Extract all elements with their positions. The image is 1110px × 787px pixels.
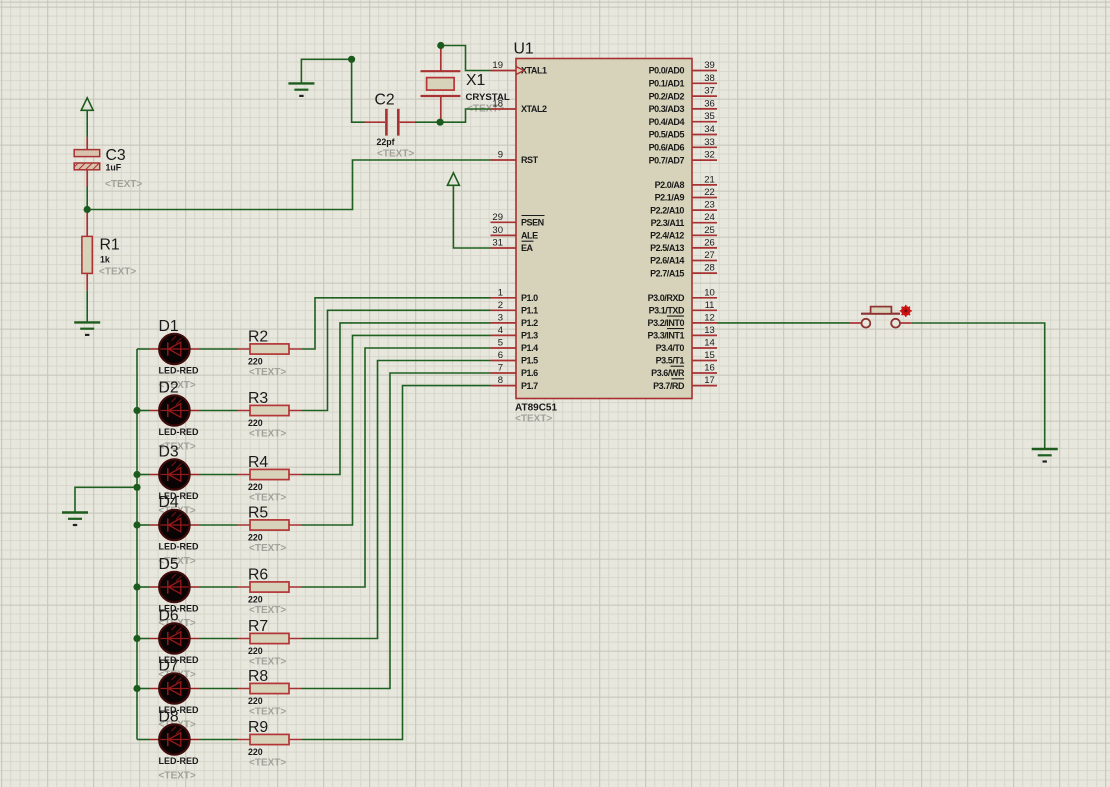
svg-text:16: 16 (704, 363, 715, 374)
resistor R8 body (250, 683, 289, 693)
resistor R1 text placeholder (99, 267, 136, 278)
resistor R9 reference label (248, 719, 268, 736)
resistor R9 body (250, 734, 289, 744)
resistor R1 value label 1k (100, 255, 110, 265)
resistor R2 pin stubs (238, 348, 302, 350)
svg-text:P2.4/A12: P2.4/A12 (650, 231, 684, 241)
svg-text:P2.5/A13: P2.5/A13 (650, 243, 684, 253)
LED D2 value label LED-RED (159, 427, 199, 437)
resistor R7 text placeholder (249, 657, 286, 668)
wire resistor R8 to P1.6 pin (302, 373, 491, 689)
LED D5 value label LED-RED (159, 604, 199, 614)
button interactive marker (900, 305, 912, 317)
pin 26 P2.5/A13 (650, 237, 717, 253)
svg-text:1: 1 (498, 287, 503, 298)
wire resistor R6 to P1.4 pin (302, 348, 491, 587)
pin 24 P2.3/A11 (651, 212, 717, 228)
capacitor C3 top pin stub (86, 137, 88, 149)
svg-text:P0.7/AD7: P0.7/AD7 (649, 155, 685, 165)
svg-text:220: 220 (248, 418, 263, 428)
svg-text:2: 2 (498, 300, 503, 311)
svg-text:P3.5/T1: P3.5/T1 (656, 356, 685, 366)
resistor R5 pin stubs (238, 524, 302, 526)
wire LED cathode bus (136, 349, 138, 740)
pin 7 P1.6 (491, 363, 539, 379)
LED D4 text placeholder (159, 556, 196, 567)
crystal X1 text placeholder (467, 104, 504, 115)
wire node B to XTAL2 pin (440, 109, 490, 122)
svg-text:LED-RED: LED-RED (159, 542, 199, 552)
svg-text:12: 12 (704, 312, 715, 323)
resistor R2 reference label (248, 329, 268, 346)
wire EA power arrow to EA pin (453, 185, 490, 248)
pin 3 P1.2 (491, 312, 539, 328)
LED D5 text placeholder (159, 618, 196, 629)
svg-text:PSEN: PSEN (521, 218, 544, 228)
crystal X1 body (427, 78, 455, 91)
resistor R4 reference label (248, 454, 268, 471)
svg-text:P1.7: P1.7 (521, 381, 538, 391)
svg-text:P2.0/A8: P2.0/A8 (655, 180, 685, 190)
svg-text:R1: R1 (100, 237, 120, 254)
svg-text:<TEXT>: <TEXT> (249, 657, 286, 668)
svg-text:P2.6/A14: P2.6/A14 (650, 256, 684, 266)
pin 17 P3.7/RD (653, 375, 717, 391)
svg-text:4: 4 (498, 325, 503, 336)
svg-text:R2: R2 (248, 329, 268, 346)
resistor R5 reference label (248, 505, 268, 522)
resistor R4 text placeholder (249, 493, 286, 504)
svg-text:R6: R6 (248, 567, 268, 584)
resistor R6 pin stubs (238, 586, 302, 588)
wire crystal-top node to XTAL1 pin (441, 46, 491, 71)
resistor R1 bottom pin stub (86, 273, 88, 290)
svg-text:D5: D5 (159, 556, 179, 573)
svg-text:35: 35 (704, 111, 715, 122)
svg-text:C3: C3 (106, 147, 126, 164)
svg-text:R5: R5 (248, 505, 268, 522)
pin 34 P0.5/AD5 (649, 124, 717, 140)
svg-text:P3.1/TXD: P3.1/TXD (649, 306, 685, 316)
svg-text:R3: R3 (248, 390, 268, 407)
pin 18 XTAL2 (491, 99, 548, 115)
svg-text:31: 31 (492, 238, 503, 249)
svg-text:1uF: 1uF (106, 163, 122, 173)
LED D6 reference label (159, 608, 179, 625)
LED D3 reference label (159, 444, 179, 461)
resistor R3 reference label (248, 390, 268, 407)
svg-text:P2.1/A9: P2.1/A9 (655, 193, 685, 203)
LED D8 (137, 724, 200, 754)
LED D5 (137, 572, 200, 602)
svg-text:P2.7/A15: P2.7/A15 (650, 268, 684, 278)
svg-text:26: 26 (704, 237, 715, 248)
svg-text:P0.0/AD0: P0.0/AD0 (649, 66, 685, 76)
LED D7 (137, 673, 200, 703)
svg-text:P0.5/AD5: P0.5/AD5 (649, 130, 685, 140)
pin 21 P2.0/A8 (655, 174, 717, 190)
IC U1 text placeholder (515, 414, 552, 425)
wire LED D5 anode to resistor R6 (200, 586, 238, 588)
pin 33 P0.6/AD6 (649, 137, 717, 153)
svg-text:10: 10 (704, 287, 715, 298)
LED D2 reference label (159, 380, 179, 397)
LED D7 reference label (159, 658, 179, 675)
pin 12 P3.2/INT0 (648, 312, 717, 328)
pin 5 P1.4 (491, 338, 539, 354)
resistor R6 value label 220 (248, 595, 263, 605)
resistor R2 value label 220 (248, 357, 263, 367)
crystal X1 bottom pin stub (440, 96, 442, 122)
wire LED D3 anode to resistor R4 (200, 474, 238, 476)
svg-text:34: 34 (704, 124, 715, 135)
svg-text:D4: D4 (159, 494, 179, 511)
svg-text:19: 19 (492, 60, 503, 71)
svg-text:P3.7/RD: P3.7/RD (653, 381, 685, 391)
svg-text:LED-RED: LED-RED (159, 427, 199, 437)
svg-text:P0.3/AD3: P0.3/AD3 (649, 104, 685, 114)
pin 13 P3.3/INT1 (648, 325, 717, 341)
svg-text:24: 24 (704, 212, 715, 223)
svg-text:LED-RED: LED-RED (159, 756, 199, 766)
capacitor C2 text placeholder (377, 149, 414, 160)
pin 22 P2.1/A9 (655, 187, 717, 203)
svg-text:D6: D6 (159, 608, 179, 625)
capacitor C3 text placeholder (105, 179, 142, 190)
svg-text:<TEXT>: <TEXT> (377, 149, 414, 160)
svg-text:6: 6 (498, 350, 503, 361)
LED D4 reference label (159, 494, 179, 511)
wire button to ground (911, 323, 1044, 449)
svg-text:<TEXT>: <TEXT> (105, 179, 142, 190)
svg-text:22pf: 22pf (377, 137, 395, 147)
svg-text:<TEXT>: <TEXT> (249, 707, 286, 718)
resistor R4 pin stubs (238, 474, 302, 476)
svg-text:ALE: ALE (521, 231, 538, 241)
svg-text:13: 13 (704, 325, 715, 336)
wire resistor R3 to P1.1 pin (302, 310, 491, 410)
pin 27 P2.6/A14 (650, 250, 717, 266)
junction dots on LED bus (133, 407, 140, 692)
svg-text:P2.3/A11: P2.3/A11 (651, 218, 685, 228)
wire P3.2 pin to button (717, 322, 850, 324)
svg-text:220: 220 (248, 646, 263, 656)
resistor R8 value label 220 (248, 696, 263, 706)
svg-text:D7: D7 (159, 658, 179, 675)
svg-text:32: 32 (704, 150, 715, 161)
svg-text:D2: D2 (159, 380, 179, 397)
wire C2 right to node B (415, 121, 440, 123)
capacitor C2 value label 22pf (377, 137, 395, 147)
IC U1 AT89C51 body (516, 59, 692, 399)
svg-text:EA: EA (521, 243, 534, 253)
svg-text:1k: 1k (100, 255, 110, 265)
LED D3 (137, 459, 200, 489)
resistor R3 text placeholder (249, 429, 286, 440)
svg-text:R4: R4 (248, 454, 268, 471)
svg-text:7: 7 (498, 363, 503, 374)
svg-text:P0.6/AD6: P0.6/AD6 (649, 143, 685, 153)
capacitor C3 top plate (74, 150, 100, 157)
wire LED D8 anode to resistor R9 (200, 739, 238, 741)
ground below R1 (74, 322, 100, 335)
resistor R9 pin stubs (238, 739, 302, 741)
svg-text:36: 36 (704, 98, 715, 109)
svg-text:5: 5 (498, 338, 503, 349)
LED D1 reference label (159, 318, 179, 335)
wire resistor R7 to P1.5 pin (302, 361, 491, 639)
IC U1 reference label (514, 41, 534, 58)
svg-text:R7: R7 (248, 618, 268, 635)
wire C3/R1 junction to RST pin (87, 160, 490, 210)
svg-text:LED-RED: LED-RED (159, 366, 199, 376)
resistor R1 body (82, 236, 92, 273)
pin 25 P2.4/A12 (650, 225, 717, 241)
LED D2 text placeholder (159, 442, 196, 453)
svg-text:39: 39 (704, 60, 715, 71)
LED D8 reference label (159, 709, 179, 726)
wire resistor R2 to P1.0 pin (302, 298, 491, 349)
LED D6 text placeholder (159, 670, 196, 681)
LED D8 text placeholder (159, 771, 196, 782)
svg-text:P3.0/RXD: P3.0/RXD (648, 293, 685, 303)
capacitor C2 reference label (375, 92, 395, 109)
LED D7 text placeholder (159, 720, 196, 731)
pin 30 ALE (491, 225, 539, 241)
capacitor C2 left plate (385, 109, 388, 136)
svg-text:P3.3/INT1: P3.3/INT1 (648, 331, 685, 341)
svg-text:R8: R8 (248, 668, 268, 685)
LED D3 text placeholder (159, 506, 196, 517)
pin 4 P1.3 (491, 325, 539, 341)
svg-text:P0.4/AD4: P0.4/AD4 (649, 117, 685, 127)
svg-text:25: 25 (704, 225, 715, 236)
svg-text:P0.2/AD2: P0.2/AD2 (649, 91, 685, 101)
pin 35 P0.4/AD4 (649, 111, 717, 127)
wire ground branch from LED bus (75, 487, 137, 512)
pin 6 P1.5 (491, 350, 539, 366)
svg-text:P0.1/AD1: P0.1/AD1 (649, 79, 685, 89)
resistor R9 text placeholder (249, 758, 286, 769)
svg-text:<TEXT>: <TEXT> (249, 367, 286, 378)
wire LED D6 anode to resistor R7 (200, 638, 238, 640)
resistor R4 body (250, 469, 289, 479)
svg-text:11: 11 (705, 300, 715, 311)
svg-text:29: 29 (492, 212, 503, 223)
wire LED D4 anode to resistor R5 (200, 524, 238, 526)
svg-text:23: 23 (704, 200, 715, 211)
LED D2 (137, 395, 200, 425)
resistor R8 reference label (248, 668, 268, 685)
svg-text:P2.2/A10: P2.2/A10 (650, 205, 684, 215)
resistor R5 value label 220 (248, 533, 263, 543)
svg-text:U1: U1 (514, 41, 534, 58)
LED D7 value label LED-RED (159, 705, 199, 715)
svg-text:21: 21 (704, 174, 715, 185)
push button (850, 307, 911, 328)
wire node A down to C2 left (352, 59, 365, 122)
wire resistor R5 to P1.3 pin (302, 335, 491, 525)
svg-text:8: 8 (498, 375, 503, 386)
svg-text:<TEXT>: <TEXT> (159, 771, 196, 782)
svg-text:30: 30 (492, 225, 503, 236)
wire resistor R9 to P1.7 pin (302, 386, 491, 740)
svg-text:XTAL2: XTAL2 (521, 104, 547, 114)
svg-text:P1.4: P1.4 (521, 343, 538, 353)
wire LED D1 anode to resistor R2 (200, 348, 238, 350)
LED D4 value label LED-RED (159, 542, 199, 552)
power symbol near EA pin (447, 173, 459, 186)
LED D6 (137, 623, 200, 653)
resistor R8 pin stubs (238, 688, 302, 690)
svg-text:17: 17 (704, 375, 715, 386)
svg-text:<TEXT>: <TEXT> (99, 267, 136, 278)
svg-text:<TEXT>: <TEXT> (249, 493, 286, 504)
LED D1 value label LED-RED (159, 366, 199, 376)
pin 32 P0.7/AD7 (649, 150, 717, 166)
resistor R7 reference label (248, 618, 268, 635)
crystal X1 value label CRYSTAL (466, 92, 510, 103)
svg-text:CRYSTAL: CRYSTAL (466, 92, 510, 103)
junction node B crystal bottom (437, 119, 444, 126)
wire resistor R4 to P1.2 pin (302, 323, 491, 475)
LED D3 value label LED-RED (159, 491, 199, 501)
svg-text:3: 3 (498, 312, 503, 323)
svg-text:R9: R9 (248, 719, 268, 736)
resistor R3 body (250, 405, 289, 415)
LED D5 reference label (159, 556, 179, 573)
junction node C3/R1/RST (84, 206, 91, 213)
pin 28 P2.7/A15 (650, 263, 717, 279)
LED D8 value label LED-RED (159, 756, 199, 766)
wire C3 bottom to junction (86, 187, 88, 213)
svg-text:<TEXT>: <TEXT> (249, 543, 286, 554)
svg-text:<TEXT>: <TEXT> (249, 429, 286, 440)
svg-text:33: 33 (704, 137, 715, 148)
capacitor C2 left pin stub (364, 121, 385, 123)
resistor R6 text placeholder (249, 605, 286, 616)
svg-text:P1.6: P1.6 (521, 368, 538, 378)
svg-text:38: 38 (704, 73, 715, 84)
resistor R7 value label 220 (248, 646, 263, 656)
pin 8 P1.7 (491, 375, 539, 391)
ground below button (1032, 449, 1058, 462)
pin 2 P1.1 (491, 300, 539, 316)
pin 36 P0.3/AD3 (649, 98, 717, 114)
resistor R3 pin stubs (238, 410, 302, 412)
power symbol above C3 (81, 98, 93, 137)
pin 1 P1.0 (491, 287, 539, 303)
wire R1 bottom to ground (86, 290, 88, 322)
pin 11 P3.1/TXD (649, 300, 717, 316)
LED D6 value label LED-RED (159, 655, 199, 665)
pin 9 RST (491, 150, 539, 166)
pin 37 P0.2/AD2 (649, 86, 717, 102)
pin 29 PSEN (491, 212, 545, 228)
resistor R4 value label 220 (248, 482, 263, 492)
svg-text:D8: D8 (159, 709, 179, 726)
svg-text:22: 22 (704, 187, 715, 198)
svg-text:P1.1: P1.1 (521, 306, 538, 316)
pin 23 P2.2/A10 (650, 200, 717, 216)
svg-text:X1: X1 (466, 72, 486, 89)
svg-text:<TEXT>: <TEXT> (249, 758, 286, 769)
capacitor C3 bottom pin stub (86, 170, 88, 187)
resistor R6 reference label (248, 567, 268, 584)
capacitor C3 bottom plate (hatched) (74, 163, 100, 170)
capacitor C2 right pin stub (400, 121, 416, 123)
resistor R2 text placeholder (249, 367, 286, 378)
wire LED D2 anode to resistor R3 (200, 410, 238, 412)
svg-text:15: 15 (704, 350, 715, 361)
resistor R1 reference label (100, 237, 120, 254)
capacitor C3 value label 1uF (106, 163, 122, 173)
capacitor C2 right plate (397, 109, 400, 136)
svg-text:P1.2: P1.2 (521, 318, 538, 328)
crystal X1 bottom plate (421, 95, 461, 97)
svg-text:220: 220 (248, 595, 263, 605)
wire LED D7 anode to resistor R8 (200, 688, 238, 690)
resistor R2 body (250, 344, 289, 354)
svg-text:220: 220 (248, 357, 263, 367)
svg-text:D1: D1 (159, 318, 179, 335)
svg-text:9: 9 (498, 150, 503, 161)
resistor R7 body (250, 633, 289, 643)
svg-text:C2: C2 (375, 92, 395, 109)
svg-text:37: 37 (704, 86, 715, 97)
pin 19 XTAL1 (491, 60, 548, 76)
svg-text:AT89C51: AT89C51 (515, 403, 557, 414)
svg-text:18: 18 (492, 99, 503, 110)
svg-text:D3: D3 (159, 444, 179, 461)
svg-text:27: 27 (704, 250, 715, 261)
LED D1 text placeholder (159, 380, 196, 391)
svg-text:P1.3: P1.3 (521, 331, 538, 341)
ground left of LEDs (62, 513, 88, 526)
svg-text:P3.4/T0: P3.4/T0 (656, 343, 685, 353)
svg-text:28: 28 (704, 263, 715, 274)
crystal X1 top plate (421, 70, 461, 72)
svg-text:P1.5: P1.5 (521, 356, 538, 366)
IC U1 value label AT89C51 (515, 403, 557, 414)
pin 15 P3.5/T1 (656, 350, 717, 366)
resistor R5 text placeholder (249, 543, 286, 554)
svg-text:220: 220 (248, 696, 263, 706)
pin 39 P0.0/AD0 (649, 60, 717, 76)
svg-text:P1.0: P1.0 (521, 293, 538, 303)
resistor R5 body (250, 520, 289, 530)
pin 14 P3.4/T0 (656, 338, 717, 354)
crystal X1 reference label (466, 72, 486, 89)
svg-text:220: 220 (248, 533, 263, 543)
svg-text:14: 14 (704, 338, 715, 349)
pin 10 P3.0/RXD (648, 287, 717, 303)
LED D4 (137, 510, 200, 540)
svg-text:220: 220 (248, 747, 263, 757)
resistor R9 value label 220 (248, 747, 263, 757)
svg-text:<TEXT>: <TEXT> (515, 414, 552, 425)
ground near crystal (288, 83, 314, 96)
resistor R6 body (250, 582, 289, 592)
pin 16 P3.6/WR (651, 363, 717, 379)
resistor R1 top pin stub (86, 212, 88, 236)
resistor R8 text placeholder (249, 707, 286, 718)
wire node A to ground near crystal (301, 59, 351, 83)
pin 31 EA (491, 238, 534, 254)
svg-text:RST: RST (521, 155, 539, 165)
resistor R7 pin stubs (238, 638, 302, 640)
LED D1 (137, 334, 200, 364)
